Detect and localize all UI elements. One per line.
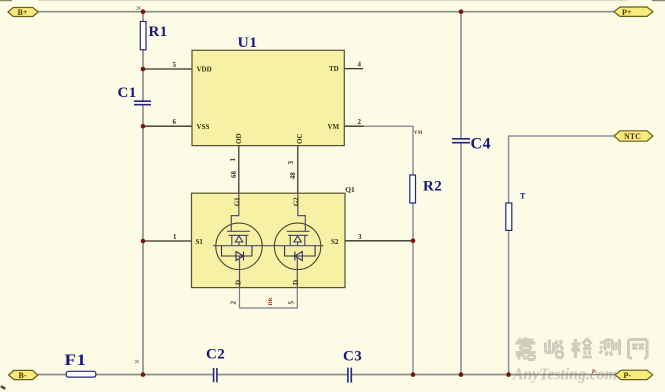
svg-text:Q1: Q1 bbox=[345, 185, 355, 194]
wire: U1 OC to Q1 G2 x=297.8 bbox=[297, 146, 299, 194]
svg-text:B+: B+ bbox=[18, 8, 28, 17]
wire: C4 vertical x=461 (gap at plates) bbox=[460, 12, 462, 375]
svg-text:S1: S1 bbox=[196, 238, 204, 246]
shared source/drain rail bbox=[213, 245, 324, 247]
capacitor C2 bbox=[206, 346, 225, 382]
wire: NTC to T vertical x=508.6 bbox=[509, 136, 614, 375]
svg-text:U1: U1 bbox=[238, 35, 258, 51]
svg-text:NTC: NTC bbox=[624, 132, 641, 141]
mosfet M2 circle bbox=[274, 223, 320, 269]
mosfet M1 channel and contacts bbox=[229, 235, 249, 245]
wire: drain loop below Q1 bbox=[240, 288, 298, 308]
mosfet M1 body diode bbox=[222, 246, 253, 261]
pin wire: U1 VSS (6) bbox=[143, 125, 192, 127]
mosfet M2 gate path bbox=[287, 193, 310, 231]
watermark Chinese text bbox=[516, 338, 648, 360]
svg-text:D: D bbox=[234, 280, 242, 285]
svg-text:T: T bbox=[520, 192, 526, 201]
pin wire: U1 VDD (5) bbox=[143, 68, 192, 70]
mosfet M1 gate path bbox=[227, 193, 250, 231]
svg-text:OD: OD bbox=[235, 134, 243, 145]
svg-text:P+: P+ bbox=[622, 8, 632, 17]
node: bottom C4 junction bbox=[459, 372, 464, 377]
svg-text:1: 1 bbox=[173, 233, 177, 241]
svg-text:VM: VM bbox=[414, 131, 423, 136]
no-ERC mark top bbox=[137, 6, 141, 9]
fuse F1 bbox=[65, 352, 96, 377]
resistor T bbox=[506, 192, 526, 231]
svg-text:C1: C1 bbox=[118, 85, 137, 101]
wire: VM net from U1 to R2 and down to bottom bbox=[363, 126, 413, 374]
resistor R1 bbox=[140, 22, 167, 50]
node: S2/R2 junction bbox=[411, 239, 416, 244]
svg-text:DR: DR bbox=[268, 297, 274, 306]
node: bottom-left junction bbox=[141, 372, 146, 377]
svg-text:3: 3 bbox=[287, 161, 295, 165]
mosfet M2 body diode bbox=[285, 246, 316, 261]
pin wire: Q1 S2 (3) to R2 node bbox=[345, 240, 413, 242]
svg-text:F1: F1 bbox=[65, 352, 87, 369]
wire: top rail B+ to P+ bbox=[38, 11, 614, 13]
svg-text:R2: R2 bbox=[423, 179, 442, 195]
node: bottom T junction bbox=[506, 372, 511, 377]
svg-text:4: 4 bbox=[358, 61, 362, 69]
mosfet M1 drain drop bbox=[239, 256, 241, 288]
svg-text:68: 68 bbox=[230, 171, 238, 179]
svg-text:TD: TD bbox=[329, 65, 339, 73]
svg-text:R1: R1 bbox=[149, 24, 168, 40]
node: top-left junction bbox=[141, 9, 146, 14]
svg-text:5: 5 bbox=[287, 301, 295, 305]
port P+ bbox=[614, 7, 653, 17]
dual MOSFET Q1 bbox=[192, 185, 356, 288]
pin wire: U1 TD stub (4) bbox=[344, 68, 363, 70]
svg-text:D: D bbox=[292, 280, 300, 285]
node: S1 junction bbox=[141, 239, 146, 244]
port P- bbox=[615, 370, 653, 380]
wire: bottom rail B- to P- (gaps at C2, C3) bbox=[38, 374, 615, 376]
port NTC bbox=[614, 131, 653, 141]
svg-text:S2: S2 bbox=[331, 238, 339, 246]
IC U1 bbox=[192, 35, 344, 146]
svg-text:AnyTesting.com: AnyTesting.com bbox=[512, 365, 617, 384]
mosfet M2 arrow bbox=[294, 236, 301, 242]
svg-text:1: 1 bbox=[229, 158, 237, 162]
svg-text:2: 2 bbox=[358, 118, 362, 126]
node: bottom R2 junction bbox=[411, 372, 416, 377]
svg-text:G2: G2 bbox=[292, 197, 300, 206]
svg-text:VSS: VSS bbox=[197, 123, 210, 131]
svg-text:2: 2 bbox=[230, 301, 238, 305]
svg-text:VM: VM bbox=[328, 123, 340, 131]
resistor R2 bbox=[410, 175, 442, 203]
capacitor C4 bbox=[452, 135, 491, 152]
svg-text:C2: C2 bbox=[206, 346, 225, 362]
node: top C4 junction bbox=[459, 9, 464, 14]
mosfet M1 arrow bbox=[235, 236, 242, 242]
port B- bbox=[9, 370, 38, 379]
wire: U1 OD to Q1 G1 x=238.8 bbox=[238, 146, 240, 194]
svg-text:5: 5 bbox=[173, 61, 177, 69]
svg-text:VDD: VDD bbox=[197, 66, 212, 74]
no-ERC mark bottom bbox=[135, 360, 139, 363]
svg-text:OC: OC bbox=[296, 134, 304, 145]
svg-text:B-: B- bbox=[19, 371, 27, 380]
port B+ bbox=[8, 8, 38, 17]
svg-text:6: 6 bbox=[173, 118, 177, 126]
svg-text:C4: C4 bbox=[471, 135, 491, 152]
capacitor C3 bbox=[343, 349, 362, 383]
frame edge marks bbox=[0, 0, 665, 2]
svg-text:48: 48 bbox=[289, 172, 297, 180]
wire: left vertical rail x=143 (gap at C1) bbox=[142, 12, 144, 375]
pin wire: Q1 S1 (1) bbox=[143, 240, 192, 242]
svg-text:P-: P- bbox=[624, 371, 632, 380]
svg-text:G1: G1 bbox=[234, 197, 242, 206]
capacitor C1 bbox=[118, 85, 152, 105]
svg-text:3: 3 bbox=[358, 233, 362, 241]
mosfet M2 drain drop bbox=[296, 256, 298, 288]
mosfet M1 circle bbox=[216, 223, 262, 269]
node: VSS junction bbox=[141, 124, 146, 129]
mosfet M2 channel and contacts bbox=[288, 235, 308, 245]
pin wire: U1 VM stub (2) bbox=[344, 125, 363, 127]
node: VDD junction bbox=[141, 67, 146, 72]
svg-text:C3: C3 bbox=[343, 349, 362, 365]
